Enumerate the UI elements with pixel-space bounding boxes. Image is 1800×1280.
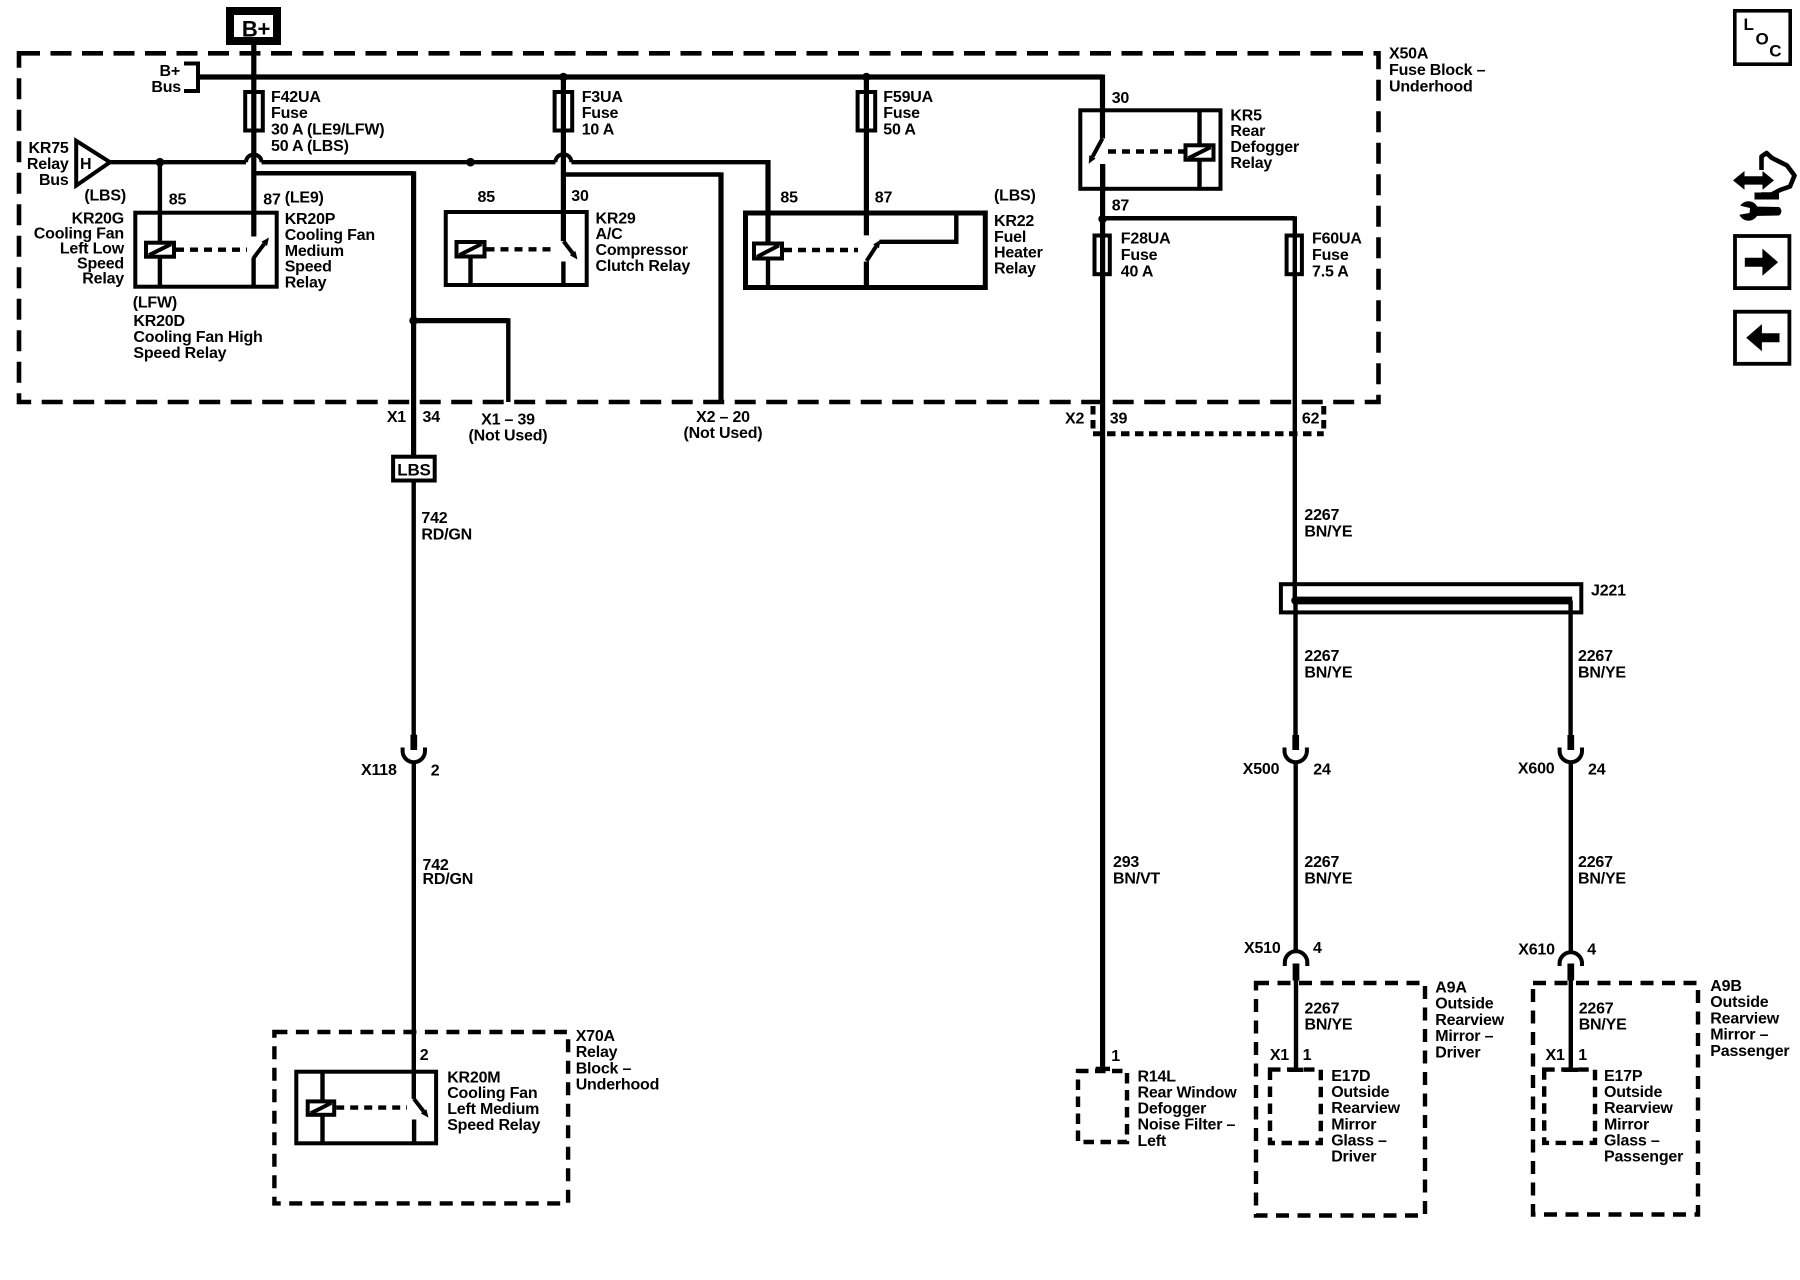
- wire F3UA feed down to KR29 terminal 30: [561, 77, 566, 241]
- svg-text:LBS: LBS: [397, 461, 430, 480]
- svg-text:87: 87: [263, 192, 281, 209]
- fuse F28UA: [1095, 236, 1110, 275]
- mirror A9B dashed box: [1533, 983, 1698, 1215]
- svg-text:X50A: X50A: [1389, 46, 1429, 63]
- relay KR5 box: [1080, 110, 1220, 189]
- wire junction to F60UA: [1103, 216, 1295, 220]
- wire J221 internal bus bar: [1293, 597, 1572, 605]
- wire second line from F42UA to X1-34 drop: [254, 171, 414, 175]
- svg-text:7.5 A: 7.5 A: [1312, 263, 1349, 280]
- svg-text:Mirror: Mirror: [1604, 1116, 1649, 1133]
- svg-text:2: 2: [431, 763, 440, 780]
- svg-text:2267: 2267: [1579, 1001, 1614, 1018]
- svg-text:BN/YE: BN/YE: [1305, 1017, 1353, 1034]
- icon glove cuff bar: [1755, 193, 1780, 200]
- connector X510 cap: [1285, 951, 1308, 966]
- connector X610 cap: [1560, 952, 1582, 966]
- svg-text:Relay: Relay: [285, 275, 327, 292]
- wire X510 down to E17D pin 1: [1294, 964, 1298, 1068]
- svg-text:J221: J221: [1591, 582, 1626, 599]
- svg-text:2267: 2267: [1304, 507, 1339, 524]
- svg-text:X2: X2: [1065, 410, 1084, 427]
- icon glove outline: [1761, 153, 1795, 195]
- svg-text:A9A: A9A: [1435, 980, 1467, 997]
- svg-text:39: 39: [1110, 410, 1128, 427]
- relay KR22 box: [746, 213, 986, 288]
- wire J221 left leg down to X500: [1293, 601, 1297, 736]
- noise filter R14L dashed box: [1078, 1071, 1127, 1142]
- wire KR75 relay bus segment 3: [571, 160, 770, 164]
- KR75 relay bus triangle: [76, 141, 110, 186]
- icon adjustable double arrow: [1733, 171, 1774, 190]
- svg-text:BN/VT: BN/VT: [1113, 870, 1160, 887]
- wire J221 right leg down to X600: [1568, 601, 1572, 736]
- mirror glass E17D dashed box: [1270, 1070, 1321, 1143]
- svg-text:2267: 2267: [1578, 648, 1613, 665]
- wire B+ bus turn down to KR5 terminal 30: [1100, 75, 1105, 139]
- svg-text:Compressor: Compressor: [596, 242, 688, 259]
- svg-text:X1: X1: [1546, 1047, 1565, 1064]
- svg-text:Underhood: Underhood: [576, 1077, 660, 1094]
- svg-text:BN/YE: BN/YE: [1578, 870, 1626, 887]
- svg-text:50 A (LBS): 50 A (LBS): [271, 138, 349, 155]
- svg-text:Bus: Bus: [151, 79, 181, 96]
- fuse F59UA: [858, 92, 876, 131]
- svg-text:Cooling Fan: Cooling Fan: [285, 227, 375, 244]
- splice code box LBS: [393, 457, 435, 481]
- svg-text:Passenger: Passenger: [1604, 1149, 1683, 1166]
- svg-text:F59UA: F59UA: [883, 89, 933, 106]
- wire KR29 switch stub: [561, 262, 565, 286]
- svg-text:Relay: Relay: [1230, 155, 1272, 172]
- wire KR20G coil bottom: [158, 257, 162, 287]
- svg-text:X1: X1: [1270, 1047, 1289, 1064]
- svg-text:Speed Relay: Speed Relay: [133, 345, 226, 362]
- wire KR75 relay bus segment 2: [262, 160, 556, 164]
- svg-text:2267: 2267: [1304, 648, 1339, 665]
- svg-text:X1 – 39: X1 – 39: [481, 412, 535, 429]
- wire second line from F3UA to X2-20 stub: [563, 172, 721, 176]
- svg-text:87: 87: [875, 189, 893, 206]
- svg-text:A9B: A9B: [1710, 978, 1741, 995]
- svg-text:X1: X1: [387, 409, 406, 426]
- svg-text:Rear Window: Rear Window: [1138, 1085, 1238, 1102]
- svg-text:742: 742: [421, 510, 447, 527]
- relay KR20P switch arm: [254, 244, 265, 258]
- connector X2 small dashed box left edge: [1091, 406, 1096, 433]
- wire B+ bus horizontal: [200, 74, 1103, 79]
- svg-text:Rearview: Rearview: [1604, 1100, 1673, 1117]
- svg-text:24: 24: [1313, 762, 1331, 779]
- wire X1-34 vertical drop to LBS: [411, 171, 416, 456]
- wire 293 BN/VT F28UA down to R14L: [1100, 234, 1105, 1067]
- svg-text:X118: X118: [361, 762, 397, 779]
- svg-text:Relay: Relay: [27, 156, 69, 173]
- svg-text:Mirror –: Mirror –: [1710, 1027, 1768, 1044]
- wire KR5 coil feed top: [1197, 110, 1201, 145]
- svg-text:2: 2: [420, 1047, 429, 1064]
- wire R14L pin 1 T-bar: [1096, 1067, 1110, 1071]
- icon forward arrow box: [1735, 236, 1789, 288]
- svg-text:85: 85: [780, 189, 798, 206]
- svg-text:X600: X600: [1518, 761, 1555, 778]
- wire X600 down to X610: [1569, 762, 1573, 952]
- connector X600 cup: [1560, 748, 1582, 763]
- svg-text:50 A: 50 A: [883, 122, 916, 139]
- svg-text:B+: B+: [160, 63, 181, 80]
- svg-text:Driver: Driver: [1435, 1044, 1480, 1061]
- svg-text:30: 30: [1112, 90, 1130, 107]
- svg-text:KR22: KR22: [994, 213, 1034, 230]
- wire KR22 switch stub: [864, 262, 869, 288]
- relay KR20M coil: [308, 1101, 335, 1114]
- svg-text:Block –: Block –: [576, 1060, 632, 1077]
- node KR5 87 junction: [1098, 215, 1107, 224]
- svg-text:293: 293: [1113, 854, 1139, 871]
- connector X118 pin: [410, 735, 417, 750]
- svg-text:KR29: KR29: [596, 210, 636, 227]
- svg-text:Fuse: Fuse: [271, 105, 308, 122]
- svg-text:34: 34: [423, 409, 441, 426]
- svg-text:BN/YE: BN/YE: [1579, 1017, 1627, 1034]
- svg-text:Cooling Fan: Cooling Fan: [447, 1085, 537, 1102]
- svg-text:2267: 2267: [1304, 854, 1339, 871]
- relay KR20G coil: [146, 243, 174, 257]
- relay KR5 switch arm: [1093, 139, 1103, 157]
- icon wrench: [1739, 201, 1759, 221]
- svg-text:1: 1: [1111, 1048, 1120, 1065]
- relay KR22 switch arm: [867, 246, 877, 261]
- svg-text:85: 85: [478, 189, 496, 206]
- svg-text:2267: 2267: [1305, 1001, 1340, 1018]
- svg-text:Fuse: Fuse: [883, 105, 920, 122]
- wire hop over F3UA feed: [555, 154, 571, 162]
- wire LBS down to connector X118: [412, 481, 416, 736]
- svg-text:24: 24: [1588, 762, 1606, 779]
- svg-text:Relay: Relay: [994, 261, 1036, 278]
- wire KR20G-KR20P coil link: [176, 247, 247, 251]
- icon back arrow box: [1735, 312, 1789, 364]
- svg-text:X510: X510: [1244, 940, 1281, 957]
- svg-text:E17P: E17P: [1604, 1068, 1643, 1085]
- svg-text:Driver: Driver: [1331, 1149, 1376, 1166]
- relay KR20M switch arm: [414, 1099, 424, 1112]
- wire KR29 coil link: [487, 247, 555, 251]
- svg-text:85: 85: [169, 192, 187, 209]
- wire KR20M coil feed top: [320, 1072, 324, 1102]
- wire KR22 switch link to 30: [880, 213, 957, 242]
- svg-text:Glass –: Glass –: [1331, 1132, 1387, 1149]
- wire X118 down to KR20M terminal 2: [412, 762, 416, 1099]
- svg-text:KR20M: KR20M: [447, 1069, 500, 1086]
- svg-text:(Not Used): (Not Used): [469, 428, 548, 445]
- wire hop over F42UA feed: [246, 154, 262, 162]
- wire KR5 87 down to junction: [1100, 165, 1105, 234]
- svg-text:30 A (LE9/LFW): 30 A (LE9/LFW): [271, 122, 384, 139]
- svg-text:Underhood: Underhood: [1389, 79, 1473, 96]
- node J221 left junction: [1291, 596, 1300, 605]
- wire KR5 coil link: [1108, 149, 1184, 153]
- splice pack J221: [1281, 584, 1581, 612]
- svg-text:H: H: [80, 156, 91, 173]
- svg-text:X2 – 20: X2 – 20: [696, 409, 750, 426]
- wire relay bus turn down to KR22 coil: [765, 160, 770, 243]
- svg-text:Outside: Outside: [1604, 1084, 1662, 1101]
- svg-text:L: L: [1744, 15, 1754, 34]
- fuse F3UA: [555, 92, 573, 131]
- svg-text:Heater: Heater: [994, 245, 1043, 262]
- svg-text:BN/YE: BN/YE: [1304, 523, 1352, 540]
- connector X118 cup: [403, 748, 425, 763]
- node F3UA tap on B+ bus: [559, 73, 568, 82]
- svg-text:(LBS): (LBS): [994, 188, 1036, 205]
- fuse F60UA: [1287, 236, 1302, 275]
- relay KR20G / KR20P box: [135, 213, 276, 287]
- mirror glass E17P dashed box: [1544, 1070, 1595, 1143]
- svg-text:Rearview: Rearview: [1710, 1010, 1779, 1027]
- svg-text:Relay: Relay: [576, 1044, 618, 1061]
- svg-text:Medium: Medium: [285, 243, 344, 260]
- svg-text:F60UA: F60UA: [1312, 231, 1362, 248]
- wire KR29 coil bottom: [468, 257, 472, 286]
- wire KR20G terminal 85 drop: [158, 162, 162, 243]
- svg-text:(LFW): (LFW): [133, 294, 177, 311]
- svg-text:2267: 2267: [1578, 854, 1613, 871]
- B+ bus bracket: [184, 64, 198, 92]
- svg-text:4: 4: [1587, 942, 1596, 959]
- svg-text:Defogger: Defogger: [1230, 139, 1299, 156]
- svg-text:Outside: Outside: [1435, 996, 1493, 1013]
- connector X600 pin: [1567, 735, 1574, 750]
- svg-text:Rearview: Rearview: [1435, 1012, 1504, 1029]
- svg-text:Fuse: Fuse: [1312, 247, 1349, 264]
- wire KR5 coil bottom: [1197, 160, 1201, 189]
- svg-text:10 A: 10 A: [582, 122, 615, 139]
- relay KR29 coil: [457, 242, 485, 257]
- svg-text:Bus: Bus: [39, 172, 69, 189]
- svg-text:E17D: E17D: [1331, 1068, 1370, 1085]
- wire 2267 F60UA down to J221: [1293, 216, 1297, 600]
- wire KR20M coil link: [336, 1105, 407, 1109]
- wire F59UA feed down to KR22 terminal 87: [864, 77, 869, 235]
- svg-text:X500: X500: [1243, 761, 1280, 778]
- svg-text:F28UA: F28UA: [1121, 231, 1171, 248]
- svg-text:Mirror –: Mirror –: [1435, 1028, 1493, 1045]
- fuse F42UA: [245, 92, 263, 131]
- wire KR75 relay bus segment 1: [108, 160, 246, 164]
- node KR20G 85 tap: [156, 158, 165, 167]
- svg-text:BN/YE: BN/YE: [1304, 664, 1352, 681]
- wire X610 down to E17P pin 1: [1569, 964, 1573, 1068]
- wire KR20M switch stub: [412, 1120, 416, 1144]
- connector X500 cup: [1285, 748, 1307, 763]
- wire X1-39 stub down: [506, 318, 510, 402]
- svg-text:C: C: [1769, 42, 1781, 61]
- connector X510 pin: [1293, 964, 1300, 981]
- svg-text:KR20D: KR20D: [133, 313, 184, 330]
- svg-text:R14L: R14L: [1138, 1068, 1177, 1085]
- svg-text:KR75: KR75: [28, 140, 68, 157]
- wire B+ feed down through F42UA to KR20P terminal 87: [251, 45, 256, 237]
- svg-text:Speed: Speed: [285, 259, 332, 276]
- svg-text:(LE9): (LE9): [285, 190, 324, 207]
- wire branch to X1-39 stub: [414, 318, 509, 323]
- wire KR5 switch stub top: [1100, 164, 1105, 191]
- svg-text:Noise Filter –: Noise Filter –: [1138, 1117, 1236, 1134]
- svg-text:Rearview: Rearview: [1331, 1100, 1400, 1117]
- svg-text:(Not Used): (Not Used): [684, 425, 763, 442]
- svg-text:Passenger: Passenger: [1710, 1043, 1789, 1060]
- node X1-34 branch: [409, 316, 418, 325]
- wire X2-20 stub down: [718, 172, 723, 402]
- node F59UA tap on B+ bus: [862, 73, 871, 82]
- relay block X70A dashed box: [274, 1032, 568, 1203]
- icon LOC box: [1735, 11, 1790, 64]
- svg-text:Glass –: Glass –: [1604, 1132, 1660, 1149]
- relay KR20M box: [296, 1072, 436, 1144]
- wire KR22 coil bottom: [766, 259, 770, 288]
- wire E17P pin 1 T-bar: [1563, 1068, 1578, 1072]
- wire KR22 coil link: [784, 248, 858, 252]
- svg-text:1: 1: [1303, 1047, 1312, 1064]
- svg-text:62: 62: [1302, 410, 1320, 427]
- relay KR5 coil: [1186, 145, 1214, 159]
- relay KR29 box: [446, 212, 587, 285]
- svg-text:F3UA: F3UA: [582, 89, 624, 106]
- svg-text:KR20P: KR20P: [285, 211, 336, 228]
- svg-text:Left: Left: [1138, 1133, 1167, 1150]
- svg-text:Fuel: Fuel: [994, 229, 1026, 246]
- wire E17D pin 1 T-bar: [1289, 1068, 1304, 1072]
- svg-text:Clutch Relay: Clutch Relay: [596, 258, 691, 275]
- svg-text:F42UA: F42UA: [271, 89, 321, 106]
- wire KR20M coil bottom: [320, 1115, 324, 1144]
- svg-text:Fuse: Fuse: [582, 105, 619, 122]
- svg-text:87: 87: [1112, 197, 1130, 214]
- svg-text:Cooling Fan High: Cooling Fan High: [133, 329, 262, 346]
- svg-text:Rear: Rear: [1230, 123, 1265, 140]
- connector X2 small dashed box bottom edge: [1093, 431, 1324, 436]
- fuse block X50A dashed border: [19, 53, 1379, 402]
- svg-text:1: 1: [1578, 1047, 1587, 1064]
- B+ box: [230, 11, 277, 41]
- svg-text:X610: X610: [1518, 942, 1555, 959]
- svg-text:BN/YE: BN/YE: [1304, 870, 1352, 887]
- svg-text:O: O: [1756, 30, 1769, 49]
- svg-text:30: 30: [571, 188, 589, 205]
- svg-text:RD/GN: RD/GN: [423, 871, 474, 888]
- wire X500 down to X510: [1293, 762, 1297, 952]
- svg-text:40 A: 40 A: [1121, 263, 1154, 280]
- mirror A9A dashed box: [1256, 983, 1425, 1216]
- svg-text:KR5: KR5: [1230, 107, 1262, 124]
- svg-text:Fuse Block –: Fuse Block –: [1389, 62, 1486, 79]
- relay KR22 coil: [754, 244, 782, 259]
- svg-text:Left Medium: Left Medium: [447, 1101, 539, 1118]
- connector X610 pin: [1567, 964, 1574, 981]
- svg-text:Defogger: Defogger: [1138, 1101, 1207, 1118]
- svg-text:4: 4: [1313, 940, 1322, 957]
- svg-text:X70A: X70A: [576, 1028, 616, 1045]
- svg-text:Mirror: Mirror: [1331, 1116, 1376, 1133]
- wire KR20P switch stub: [251, 258, 255, 287]
- svg-text:Outside: Outside: [1331, 1084, 1389, 1101]
- svg-text:Relay: Relay: [82, 270, 124, 287]
- svg-text:B+: B+: [242, 17, 270, 42]
- svg-text:BN/YE: BN/YE: [1578, 664, 1626, 681]
- svg-text:Speed Relay: Speed Relay: [447, 1117, 540, 1134]
- svg-text:RD/GN: RD/GN: [421, 527, 472, 544]
- svg-text:(LBS): (LBS): [84, 188, 126, 205]
- node KR29 85 tap: [466, 158, 475, 167]
- connector X500 pin: [1292, 735, 1299, 750]
- svg-text:Outside: Outside: [1710, 994, 1768, 1011]
- relay KR29 switch arm: [564, 241, 573, 253]
- connector X2 small dashed box right edge: [1321, 406, 1326, 433]
- svg-text:Fuse: Fuse: [1121, 247, 1158, 264]
- svg-text:A/C: A/C: [596, 226, 624, 243]
